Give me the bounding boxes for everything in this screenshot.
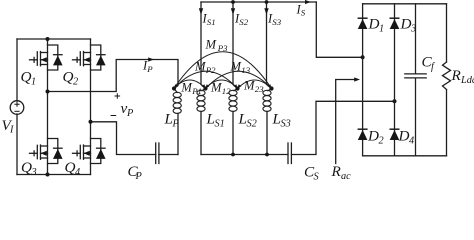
svg-text:S1: S1 xyxy=(215,119,225,130)
svg-text:R: R xyxy=(451,67,462,84)
svg-text:4: 4 xyxy=(409,136,414,147)
svg-text:S2: S2 xyxy=(239,17,248,27)
svg-text:R: R xyxy=(331,163,342,180)
svg-text:2: 2 xyxy=(379,136,384,147)
svg-text:Q: Q xyxy=(21,69,32,86)
svg-text:D: D xyxy=(398,128,410,145)
svg-text:S3: S3 xyxy=(272,17,281,27)
svg-text:23: 23 xyxy=(255,84,264,94)
svg-text:13: 13 xyxy=(241,65,250,75)
svg-text:1: 1 xyxy=(379,24,384,35)
svg-text:S: S xyxy=(314,172,319,183)
svg-text:S3: S3 xyxy=(281,119,291,130)
svg-text:3: 3 xyxy=(410,24,416,35)
svg-text:ac: ac xyxy=(341,171,351,182)
svg-text:P1: P1 xyxy=(191,86,202,96)
svg-text:3: 3 xyxy=(31,167,37,178)
svg-text:Q: Q xyxy=(63,69,74,86)
svg-text:D: D xyxy=(368,16,380,33)
svg-text:D: D xyxy=(400,16,412,33)
svg-text:P2: P2 xyxy=(205,65,216,75)
svg-text:S2: S2 xyxy=(247,119,257,130)
svg-text:P: P xyxy=(146,64,153,74)
svg-text:P: P xyxy=(135,171,143,182)
svg-text:Ldc: Ldc xyxy=(460,75,474,86)
svg-text:Q: Q xyxy=(65,159,76,176)
svg-text:P: P xyxy=(172,119,180,130)
svg-text:Q: Q xyxy=(21,159,32,176)
svg-text:4: 4 xyxy=(75,167,80,178)
svg-text:1: 1 xyxy=(31,77,36,88)
svg-text:I: I xyxy=(9,125,14,136)
svg-text:S: S xyxy=(301,8,306,18)
svg-text:D: D xyxy=(367,128,379,145)
svg-text:P3: P3 xyxy=(217,43,228,53)
svg-text:2: 2 xyxy=(73,77,78,88)
svg-text:S1: S1 xyxy=(207,17,216,27)
svg-text:12: 12 xyxy=(222,86,231,96)
svg-text:P: P xyxy=(126,108,134,119)
svg-text:M: M xyxy=(205,38,218,52)
